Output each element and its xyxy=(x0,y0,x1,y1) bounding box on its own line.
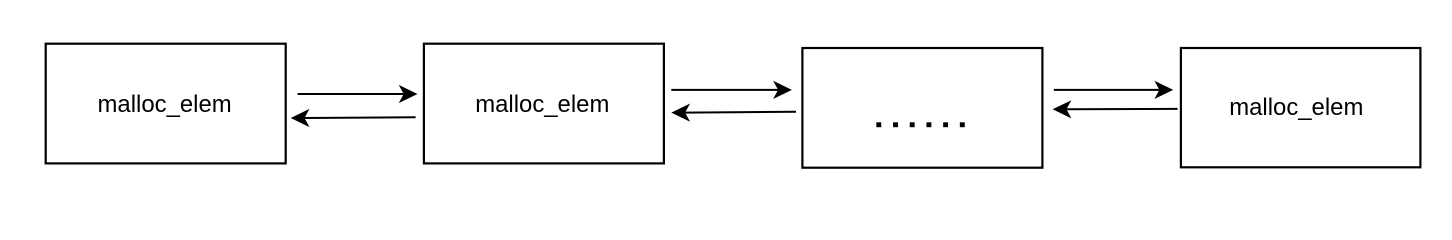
box malloc_elem 2 xyxy=(424,44,664,164)
arrow prev 1 (box2 to box1, points left) xyxy=(291,109,416,127)
arrow next 1 (box1 to box2, points right) xyxy=(298,85,418,103)
arrow next 2 (box2 to box3, points right) xyxy=(671,81,792,99)
ellipsis dots xyxy=(876,122,964,127)
svg-text:malloc_elem: malloc_elem xyxy=(475,91,609,118)
box ellipsis xyxy=(802,48,1042,168)
box malloc_elem 4 xyxy=(1181,48,1421,167)
arrow next 3 (box3 to box4, points right) xyxy=(1054,81,1173,99)
arrow prev 2 (box3 to box2, points left) xyxy=(671,104,796,122)
svg-text:malloc_elem: malloc_elem xyxy=(1229,94,1363,121)
arrow prev 3 (box4 to box3, points left) xyxy=(1053,100,1178,118)
box malloc_elem 1 xyxy=(46,44,286,164)
svg-text:malloc_elem: malloc_elem xyxy=(98,91,232,118)
